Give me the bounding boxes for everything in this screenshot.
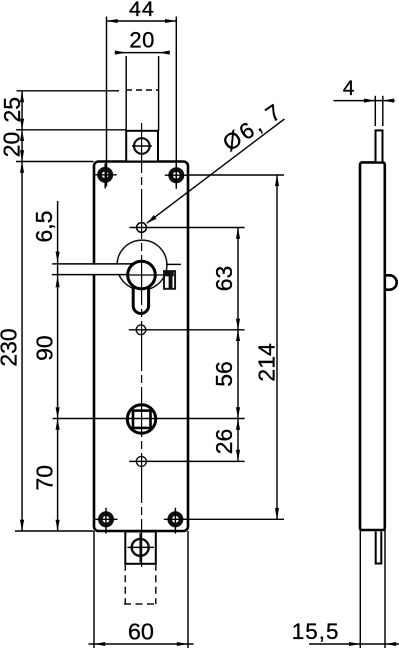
svg-text:70: 70 <box>32 465 58 491</box>
svg-text:60: 60 <box>128 619 154 645</box>
svg-text:4: 4 <box>343 77 355 100</box>
svg-text:20: 20 <box>0 132 24 158</box>
svg-text:214: 214 <box>253 343 279 382</box>
svg-text:44: 44 <box>129 0 155 21</box>
svg-text:90: 90 <box>31 335 57 361</box>
svg-text:20: 20 <box>129 28 154 53</box>
svg-text:230: 230 <box>0 328 21 366</box>
svg-text:6,5: 6,5 <box>31 211 57 243</box>
svg-text:15,5: 15,5 <box>292 619 340 644</box>
svg-text:56: 56 <box>211 361 237 387</box>
svg-text:26: 26 <box>211 429 237 455</box>
svg-text:25: 25 <box>0 97 25 123</box>
svg-text:63: 63 <box>211 266 237 292</box>
